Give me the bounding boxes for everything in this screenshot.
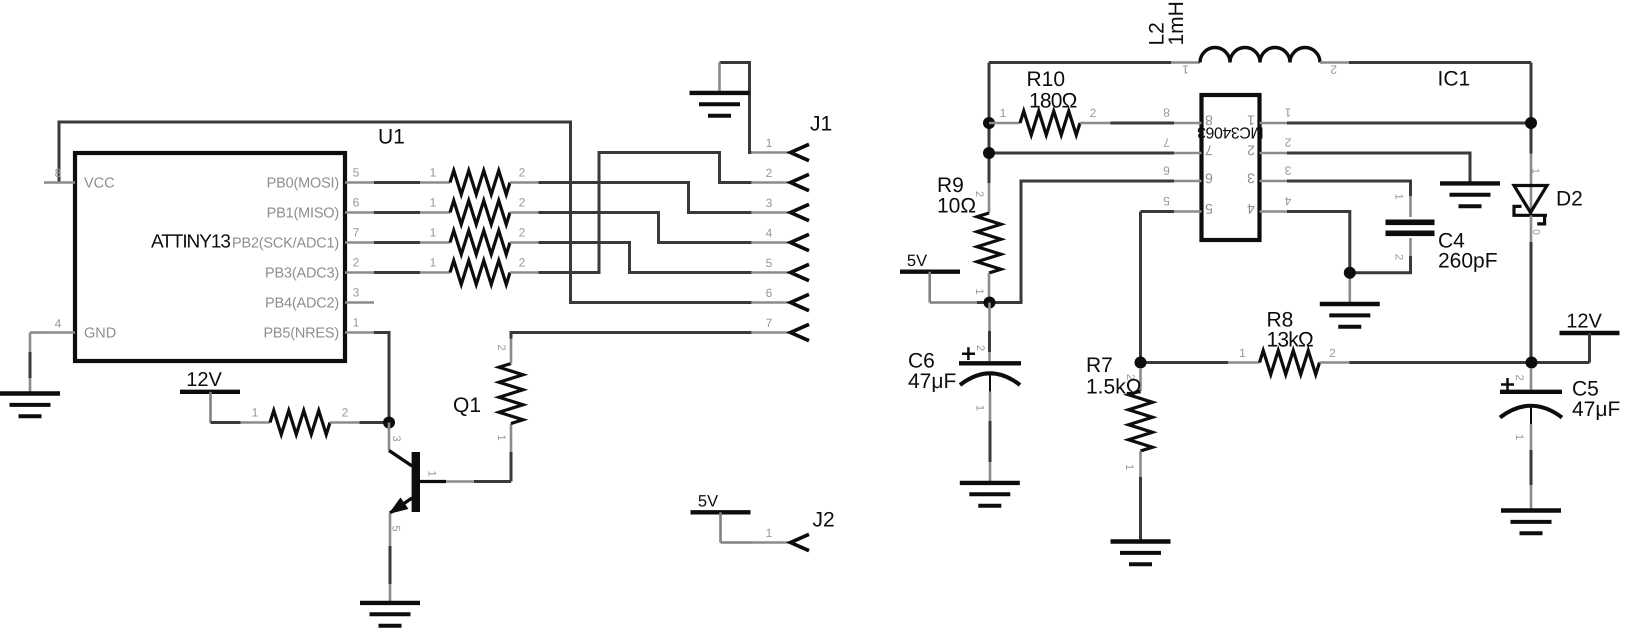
svg-text:12V: 12V [1566, 310, 1602, 332]
ground (C4) [1320, 302, 1380, 306]
wire IC pin3 to C4 [1287, 181, 1411, 196]
svg-text:8: 8 [1163, 106, 1170, 120]
svg-text:1: 1 [353, 316, 360, 330]
svg-text:1: 1 [426, 470, 438, 476]
svg-text:2: 2 [519, 226, 526, 240]
junction node R7/R8/pin5 [1135, 357, 1147, 369]
svg-text:6: 6 [766, 286, 773, 300]
wire VCC net: U1.VCC to J1 pin 6 [59, 122, 752, 303]
svg-text:8: 8 [55, 166, 62, 180]
svg-text:VCC: VCC [84, 176, 115, 192]
wire J1 pin 1 to ground hook [720, 63, 753, 153]
pin 6 of J1 [751, 301, 791, 304]
svg-text:U1: U1 [378, 126, 405, 149]
wire IC pin8 row (R10 to IC) [1111, 122, 1175, 125]
wire resistor to junction [360, 421, 390, 424]
svg-text:1: 1 [495, 434, 507, 440]
wire 5V to J2 [719, 512, 722, 542]
wire C4 bottom to node [1409, 238, 1412, 256]
svg-text:1: 1 [1239, 346, 1246, 360]
pin 3 of J1 [751, 211, 791, 214]
wire U1 GND to ground [30, 331, 45, 334]
svg-text:2: 2 [519, 256, 526, 270]
wire 12V to node [1588, 333, 1591, 363]
wire PB0 resistor to J1 pin 3 [374, 183, 752, 213]
junction node left rail pin7 row [983, 147, 995, 159]
svg-text:3: 3 [766, 196, 773, 210]
wire left vertical to R9 [988, 123, 991, 183]
supply 12V (right) [1560, 331, 1620, 335]
svg-text:180Ω: 180Ω [1029, 89, 1077, 112]
wire PB2 resistor to J1 pin 5 [374, 243, 752, 273]
svg-text:2: 2 [1090, 106, 1097, 120]
svg-text:1: 1 [430, 256, 437, 270]
svg-text:2: 2 [519, 166, 526, 180]
wire ground stub at J1 [718, 63, 721, 92]
svg-text:2: 2 [1393, 254, 1405, 260]
IC U1 ATTINY13 box [75, 153, 345, 361]
svg-text:2: 2 [1330, 63, 1337, 77]
svg-text:0: 0 [1530, 229, 1541, 235]
svg-text:GND: GND [84, 326, 116, 342]
svg-text:47μF: 47μF [908, 370, 956, 393]
svg-text:1mH: 1mH [1165, 1, 1188, 45]
svg-text:5: 5 [1163, 194, 1170, 208]
pin 4 of J1 [751, 241, 791, 244]
svg-text:7: 7 [1205, 142, 1213, 158]
svg-text:3: 3 [1247, 170, 1255, 186]
capacitor C6 (polarized) [988, 303, 991, 332]
svg-text:R7: R7 [1086, 354, 1113, 377]
ground (U1 GND) [0, 391, 60, 395]
diode D2 (schottky) [1530, 154, 1533, 187]
pin 5 of IC1 (left) [1174, 210, 1202, 213]
svg-text:2: 2 [519, 196, 526, 210]
pin 6 stub of U1 [345, 211, 374, 214]
svg-text:1: 1 [766, 526, 773, 540]
svg-text:1.5kΩ: 1.5kΩ [1086, 376, 1141, 399]
resistor R8 [1228, 361, 1260, 364]
wire node to ground (C4) [1349, 273, 1352, 302]
svg-text:5: 5 [1205, 201, 1213, 217]
wire IC pin4 to C4 bottom node [1287, 212, 1350, 273]
svg-text:4: 4 [1284, 194, 1291, 208]
svg-text:Q1: Q1 [453, 394, 481, 417]
resistor (series on PB1) [420, 211, 450, 214]
svg-text:1: 1 [1530, 168, 1541, 174]
svg-text:7: 7 [766, 316, 773, 330]
svg-text:5: 5 [390, 525, 402, 531]
svg-text:47μF: 47μF [1572, 398, 1620, 421]
svg-text:1: 1 [252, 406, 259, 420]
svg-text:PB4(ADC2): PB4(ADC2) [265, 296, 339, 312]
resistor R7 [1139, 368, 1142, 391]
svg-text:4: 4 [1247, 201, 1255, 217]
supply 12V (left) [180, 390, 240, 394]
pin 4 of IC1 (right) [1260, 210, 1288, 213]
svg-text:PB5(NRES): PB5(NRES) [263, 326, 339, 342]
svg-text:260pF: 260pF [1438, 250, 1498, 273]
svg-text:1: 1 [430, 196, 437, 210]
svg-text:1: 1 [766, 136, 773, 150]
svg-text:13kΩ: 13kΩ [1267, 329, 1313, 352]
junction node IC pin1 / D2 [1525, 117, 1537, 129]
svg-text:5V: 5V [907, 252, 927, 270]
junction node left rail pin8 row [983, 117, 995, 129]
svg-text:4: 4 [55, 317, 62, 331]
svg-text:6: 6 [353, 196, 360, 210]
pin 2 stub of U1 [345, 271, 374, 274]
svg-text:1: 1 [1123, 464, 1135, 470]
svg-text:8: 8 [1205, 112, 1213, 128]
svg-text:1: 1 [1393, 193, 1405, 199]
svg-text:5: 5 [353, 166, 360, 180]
wire Q1 base-resistor top to J1 pin 7 [511, 333, 752, 339]
pin 5 of J1 [751, 271, 791, 274]
resistor R10 [989, 122, 1020, 125]
resistor (series on PB0) [420, 181, 450, 184]
wire 12V to base resistor [209, 392, 212, 423]
supply 5V (right) [900, 270, 960, 274]
svg-text:7: 7 [353, 226, 360, 240]
svg-text:3: 3 [1284, 164, 1291, 178]
pin 1 of J1 [751, 151, 791, 154]
svg-text:2: 2 [495, 344, 507, 350]
capacitor C4 [1386, 220, 1435, 226]
svg-text:IC1: IC1 [1438, 68, 1471, 91]
pin 2 of IC1 (right) [1260, 152, 1288, 155]
svg-text:2: 2 [1284, 136, 1291, 150]
wire IC pin2 to ground [1287, 153, 1470, 182]
svg-text:J1: J1 [810, 113, 832, 136]
svg-text:2: 2 [1513, 374, 1525, 380]
svg-text:D2: D2 [1556, 188, 1583, 211]
svg-text:1: 1 [430, 166, 437, 180]
pin 8 of IC1 (left) [1174, 122, 1202, 125]
pin 7 of J1 [751, 331, 791, 334]
ground (C5) [1501, 508, 1561, 512]
pin 1 of J2 [751, 541, 791, 544]
svg-text:2: 2 [766, 166, 773, 180]
wire R8 row [1141, 361, 1229, 364]
svg-text:3: 3 [353, 286, 360, 300]
wire 5V to node [928, 272, 931, 303]
ground (R7) [1111, 539, 1171, 543]
svg-text:2: 2 [353, 256, 360, 270]
capacitor C5 (polarized) [1530, 368, 1533, 390]
svg-text:PB1(MISO): PB1(MISO) [267, 206, 339, 222]
resistor (series on PB2) [420, 241, 450, 244]
svg-text:ATTINY13: ATTINY13 [151, 232, 230, 253]
wire 5V node to IC pin6 [990, 181, 1175, 303]
transistor Q1 [388, 423, 391, 451]
svg-text:10Ω: 10Ω [937, 195, 976, 218]
svg-text:2: 2 [974, 345, 986, 351]
wire IC pin1 to D2 top [1287, 122, 1531, 125]
wire IC pin5 to R7 node [1141, 212, 1175, 363]
svg-text:1: 1 [1513, 434, 1525, 440]
wire PB3 resistor to J1 pin 2 [374, 153, 752, 273]
IC IC1 MC34063 box [1202, 95, 1260, 240]
svg-text:2: 2 [342, 406, 349, 420]
svg-text:1: 1 [974, 405, 986, 411]
pin 1 of IC1 (right) [1260, 122, 1288, 125]
wire top net: L2 row [989, 63, 1531, 154]
junction node C4/pin4 [1344, 267, 1356, 279]
svg-text:1: 1 [1284, 106, 1291, 120]
pin 2 of J1 [751, 181, 791, 184]
supply 5V (left) [691, 510, 751, 514]
junction node 12V/C5/R8/D2 [1526, 357, 1538, 369]
svg-text:PB3(ADC3): PB3(ADC3) [265, 266, 339, 282]
junction node 5V/R9/C6 [984, 297, 996, 309]
svg-text:PB2(SCK/ADC1): PB2(SCK/ADC1) [232, 236, 339, 252]
wire IC pin7 row [989, 152, 1174, 155]
resistor (12V to Q1 collector node) [241, 421, 271, 424]
svg-text:R10: R10 [1027, 68, 1066, 91]
svg-text:2: 2 [1247, 142, 1255, 158]
pin 6 of IC1 (left) [1174, 180, 1202, 183]
resistor (Q1 base, vertical) [510, 424, 513, 453]
ground (IC1 pin2) [1440, 181, 1500, 185]
svg-text:12V: 12V [186, 369, 222, 391]
svg-text:1: 1 [1000, 106, 1007, 120]
svg-text:2: 2 [1329, 346, 1336, 360]
svg-text:1: 1 [1247, 112, 1255, 128]
svg-text:7: 7 [1163, 136, 1170, 150]
pin 5 stub of U1 [345, 181, 374, 184]
inductor L2 [1171, 61, 1200, 64]
pin 1 stub of U1 [345, 331, 374, 334]
svg-text:4: 4 [766, 226, 773, 240]
ground (Q1 emitter) [360, 601, 420, 605]
svg-text:5V: 5V [698, 493, 718, 511]
resistor (series on PB3) [420, 271, 450, 274]
pin 3 stub of U1 [345, 301, 374, 304]
pin 7 of IC1 (left) [1174, 152, 1202, 155]
junction node at Q1 collector [383, 417, 395, 429]
svg-text:J2: J2 [813, 509, 835, 532]
wire PB1 resistor to J1 pin 4 [374, 213, 752, 243]
wire PB5 to junction [374, 333, 389, 423]
pin 7 stub of U1 [345, 241, 374, 244]
pin 3 of IC1 (right) [1260, 180, 1288, 183]
svg-text:1: 1 [1182, 63, 1189, 77]
ground (C6) [960, 481, 1020, 485]
svg-text:PB0(MOSI): PB0(MOSI) [267, 176, 339, 192]
svg-text:1: 1 [973, 288, 985, 294]
resistor R9 [988, 183, 991, 213]
svg-text:6: 6 [1163, 164, 1170, 178]
ground (J1 pin1) [690, 91, 750, 95]
svg-text:3: 3 [390, 435, 402, 441]
wire D2 bottom to 12V node [1530, 242, 1533, 363]
svg-text:6: 6 [1205, 170, 1213, 186]
svg-text:1: 1 [430, 226, 437, 240]
svg-text:5: 5 [766, 256, 773, 270]
